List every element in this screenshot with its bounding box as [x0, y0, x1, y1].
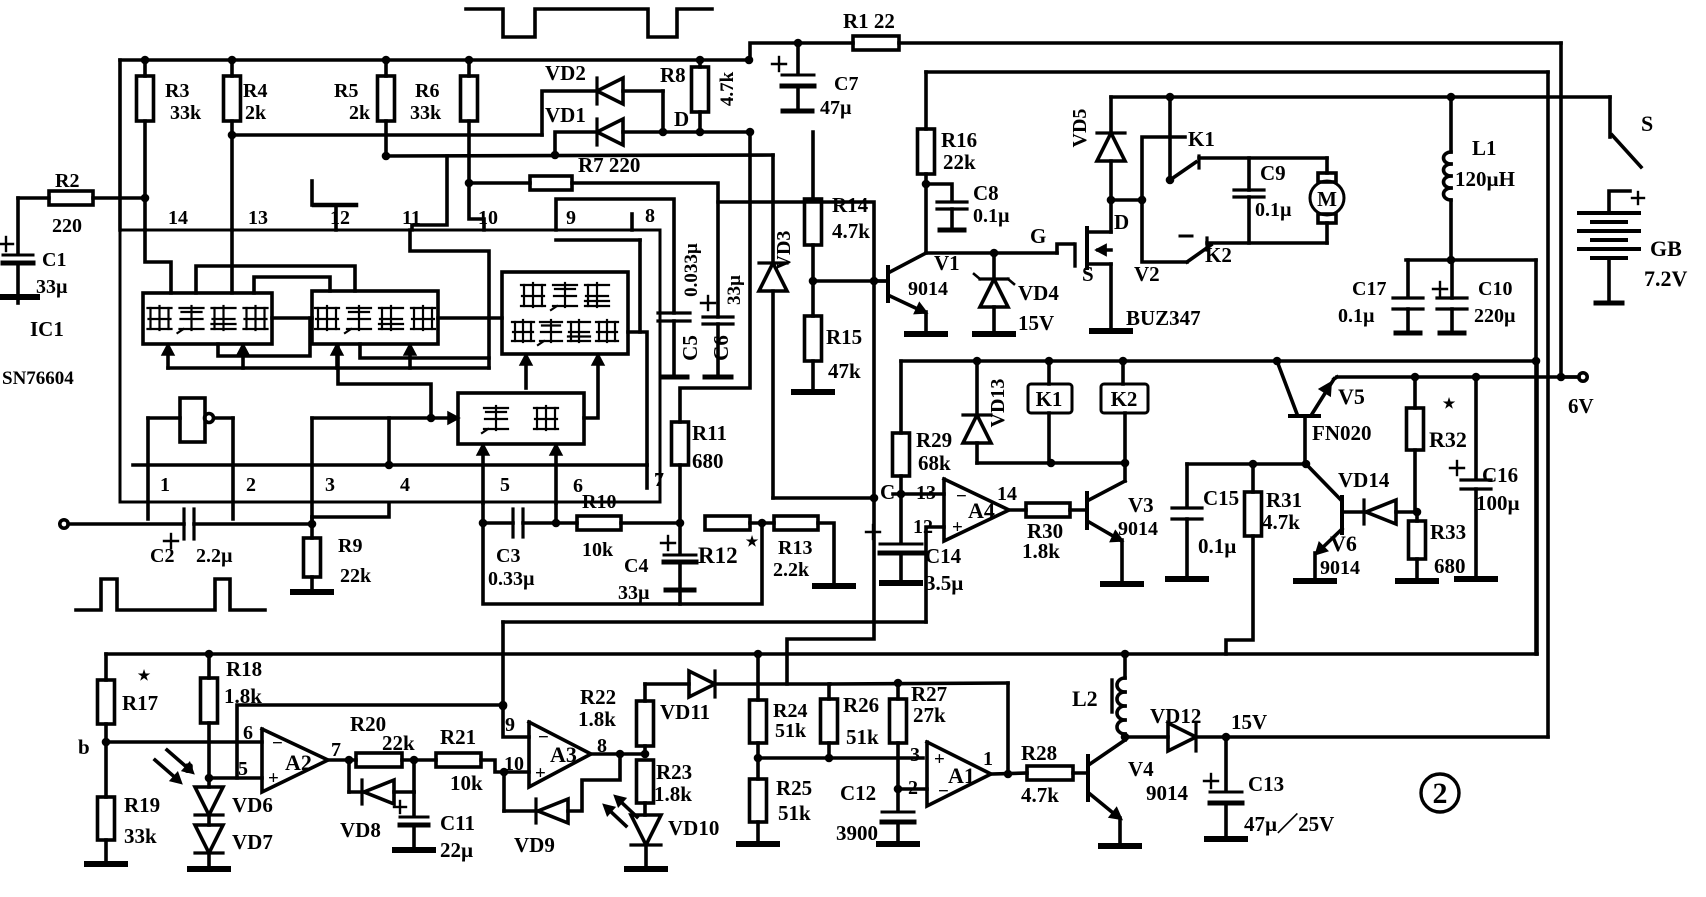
svg-text:S: S [1641, 111, 1653, 136]
terminal input open circle [60, 520, 184, 528]
photodiode VD7 [195, 815, 273, 866]
svg-text:R18: R18 [226, 657, 262, 681]
svg-text:L2: L2 [1072, 686, 1098, 711]
svg-text:VD4: VD4 [1018, 281, 1059, 305]
transistor V6 [1306, 464, 1360, 579]
resistor R13 [773, 516, 834, 583]
resistor R25 [750, 758, 813, 841]
label circled 2 [1421, 774, 1459, 812]
resistor R24 [750, 654, 808, 762]
svg-text:6: 6 [243, 722, 253, 744]
resistor R4 [224, 60, 268, 230]
IC pin9 wire to C5 [556, 199, 674, 332]
svg-text:4.7k: 4.7k [1262, 510, 1300, 534]
svg-text:+: + [535, 763, 546, 784]
diode VD9 feedback [504, 754, 620, 857]
svg-text:8: 8 [645, 205, 655, 227]
resistor R32 [1407, 377, 1467, 512]
svg-text:27k: 27k [913, 703, 946, 727]
svg-text:R29: R29 [916, 428, 952, 452]
ground for C1 [0, 297, 37, 303]
wire A4 + input riser [926, 527, 944, 622]
svg-text:R19: R19 [124, 793, 160, 817]
wire A3 plus input [504, 770, 529, 774]
resistor R21 [402, 725, 508, 795]
relay coil K2 [1101, 361, 1148, 463]
resistor R29 [893, 361, 953, 494]
svg-text:12: 12 [330, 207, 350, 229]
svg-text:K2: K2 [1205, 243, 1232, 267]
svg-text:1: 1 [160, 474, 170, 496]
svg-text:C13: C13 [1248, 772, 1284, 796]
wire A1 pin3 row [758, 754, 923, 763]
wire C10 C17 rail [1406, 256, 1536, 654]
svg-text:GB: GB [1650, 236, 1682, 261]
svg-text:R21: R21 [440, 725, 476, 749]
resistor R15 [805, 281, 863, 389]
svg-text:R4: R4 [243, 80, 267, 102]
svg-text:R20: R20 [350, 712, 386, 736]
capacitor C15 [1172, 464, 1239, 576]
ground for VD10 [627, 866, 665, 872]
ground for V4 [1101, 843, 1139, 849]
block pulse stretcher box [312, 291, 438, 344]
resistor R6 [410, 60, 484, 230]
ground for VD4 [975, 331, 1013, 337]
svg-text:C14: C14 [925, 544, 962, 568]
svg-text:51k: 51k [778, 801, 811, 825]
wire A1 pin2 [894, 785, 927, 794]
svg-text:K1: K1 [1036, 387, 1063, 411]
capacitor C3 [483, 509, 556, 590]
svg-text:IC1: IC1 [30, 317, 64, 341]
svg-text:R10: R10 [582, 491, 616, 513]
wire R7 node to V1 base [718, 202, 874, 281]
svg-text:A1: A1 [948, 763, 975, 788]
transistor V3 [1087, 463, 1158, 581]
capacitor C6 [701, 275, 745, 377]
wire D node vertical [680, 132, 750, 422]
ground for C16 [1457, 576, 1495, 582]
svg-text:C17: C17 [1352, 278, 1386, 300]
svg-text:7.2V: 7.2V [1644, 266, 1688, 291]
svg-text:1.8k: 1.8k [1022, 539, 1060, 563]
IC internal block links [145, 230, 647, 465]
wire base net to VD11 staircase [787, 281, 874, 684]
svg-text:9: 9 [505, 714, 515, 736]
capacitor C9 [1234, 158, 1292, 243]
wire long bottom rail [106, 361, 1537, 658]
wire A1 feedback row [830, 679, 1008, 774]
wire right vertical from R1 [1557, 43, 1566, 381]
svg-text:R9: R9 [338, 535, 362, 557]
svg-text:M: M [1317, 187, 1337, 211]
svg-text:9014: 9014 [908, 278, 948, 300]
svg-text:0.1µ: 0.1µ [1198, 534, 1236, 558]
svg-text:R32: R32 [1429, 427, 1467, 452]
svg-text:9014: 9014 [1146, 781, 1189, 805]
svg-text:2k: 2k [245, 102, 267, 124]
diode VD14 [1338, 468, 1421, 524]
IC internal bus [133, 461, 647, 470]
node D row with diodes [232, 91, 597, 135]
label IC1 [2, 317, 74, 389]
svg-text:33k: 33k [410, 102, 442, 124]
svg-text:R1 22: R1 22 [843, 9, 895, 33]
svg-text:0.033µ: 0.033µ [681, 243, 702, 297]
switch S [1610, 97, 1653, 167]
IC internal monostable source wire [338, 346, 431, 418]
IC internal pin1 pin2 wires [148, 418, 233, 519]
svg-text:R24: R24 [773, 700, 807, 722]
svg-text:10k: 10k [582, 539, 614, 561]
IC pin7 stub [645, 465, 649, 488]
ground for C13 [1207, 836, 1245, 842]
svg-text:13: 13 [248, 207, 268, 229]
svg-text:R5: R5 [334, 80, 358, 102]
svg-text:2k: 2k [349, 102, 371, 124]
svg-text:22µ: 22µ [440, 838, 473, 862]
svg-text:33k: 33k [124, 824, 157, 848]
resistor R31 [1226, 464, 1302, 654]
relay coil K1 [1028, 361, 1072, 463]
transistor V5 [1277, 361, 1372, 464]
svg-text:51k: 51k [775, 720, 807, 742]
ground for R9 [293, 589, 331, 595]
svg-text:C8: C8 [973, 181, 999, 205]
resistor R10 [556, 491, 684, 561]
ground for R19 [87, 861, 125, 867]
svg-text:V4: V4 [1128, 757, 1154, 781]
svg-text:VD1: VD1 [545, 103, 586, 127]
svg-text:C3: C3 [496, 545, 520, 567]
svg-text:VD12: VD12 [1150, 704, 1201, 728]
svg-text:C16: C16 [1482, 463, 1518, 487]
relay contact K1 [1142, 97, 1215, 200]
svg-text:G: G [1030, 224, 1046, 248]
svg-text:2.2k: 2.2k [773, 559, 810, 581]
photodiode VD6 [155, 750, 273, 817]
wire a to pin5 riser [237, 701, 507, 778]
svg-text:3.5µ: 3.5µ [925, 571, 963, 595]
svg-text:4.7k: 4.7k [1021, 783, 1059, 807]
wire G row [926, 224, 1073, 257]
svg-text:R15: R15 [826, 325, 862, 349]
svg-text:9014: 9014 [1320, 557, 1360, 579]
wire 15V top feed [926, 70, 1548, 74]
capacitor C10 [1433, 260, 1516, 333]
svg-text:A2: A2 [285, 750, 312, 775]
wire pin4 jog [312, 503, 389, 517]
svg-text:C10: C10 [1478, 278, 1512, 300]
motor M [1310, 158, 1344, 243]
svg-text:C5: C5 [678, 335, 702, 361]
resistor R33 [1409, 512, 1467, 578]
wire 6V rail [1337, 373, 1579, 382]
svg-text:47µ／25V: 47µ／25V [1244, 812, 1334, 836]
ground for R25 [739, 841, 777, 847]
resistor R14 [805, 132, 871, 285]
svg-text:5: 5 [238, 758, 248, 780]
op-amp A3 [504, 714, 607, 787]
svg-text:R14: R14 [832, 193, 869, 217]
capacitor C2 [150, 509, 312, 567]
svg-text:9014: 9014 [1118, 518, 1158, 540]
svg-text:R25: R25 [776, 776, 812, 800]
svg-text:14: 14 [168, 207, 188, 229]
ground for VD7 [190, 866, 228, 872]
svg-text:33µ: 33µ [724, 275, 745, 305]
wire VD3 to base net [773, 494, 878, 503]
wire pin5 stub [479, 503, 488, 527]
inductor L1 [1449, 97, 1453, 152]
capacitor C11 [394, 792, 475, 862]
inductor L2 [1072, 654, 1129, 741]
waveform top pulse train [466, 9, 712, 37]
capacitor C4 [618, 523, 696, 604]
IC internal monostable input arrows [479, 446, 560, 503]
IC internal extra wires [196, 266, 489, 358]
svg-text:VD5: VD5 [1069, 109, 1091, 148]
ground for R13 [815, 583, 853, 589]
svg-text:R17: R17 [122, 691, 158, 715]
block monostable box [458, 393, 584, 444]
svg-text:C6: C6 [709, 335, 733, 361]
resistor R27 [890, 682, 948, 789]
diode VD2 [545, 61, 663, 104]
wire relay supply rail [901, 357, 1540, 366]
inverter symbol inside IC [148, 398, 233, 442]
svg-text:BUZ347: BUZ347 [1126, 306, 1201, 330]
resistor R9 [304, 517, 373, 589]
svg-text:5: 5 [500, 474, 510, 496]
svg-text:C1: C1 [42, 249, 66, 271]
MOSFET V2 [1075, 200, 1201, 330]
resistor R18 [201, 654, 263, 782]
svg-text:14: 14 [997, 483, 1017, 505]
ground for C14 [882, 580, 920, 586]
svg-text:68k: 68k [918, 451, 951, 475]
resistor R26 [821, 684, 880, 758]
wire top supply rail [120, 56, 753, 65]
svg-text:7: 7 [654, 469, 664, 491]
capacitor C8 [926, 181, 1010, 230]
diode VD1 [545, 103, 754, 155]
transistor V4 [1088, 737, 1189, 843]
svg-text:R2: R2 [55, 170, 79, 192]
svg-text:C7: C7 [834, 73, 858, 95]
svg-text:D: D [674, 107, 689, 131]
svg-text:1.8k: 1.8k [578, 707, 616, 731]
capacitor C14 [866, 494, 963, 595]
op-amp A4 [913, 479, 1017, 541]
svg-text:120µH: 120µH [1455, 167, 1515, 191]
resistor R8 [660, 60, 738, 132]
ground for V6 [1296, 578, 1334, 584]
svg-text:100µ: 100µ [1476, 491, 1520, 515]
svg-text:−: − [538, 727, 549, 748]
svg-text:47k: 47k [828, 359, 861, 383]
wire A3 output [591, 750, 649, 759]
block comparator dead-zone box [502, 272, 628, 354]
wire motor supply row [1111, 93, 1610, 102]
svg-text:+: + [934, 749, 945, 770]
svg-text:220µ: 220µ [1474, 305, 1516, 327]
zener VD4 [974, 253, 1059, 335]
svg-text:K1: K1 [1188, 127, 1215, 151]
svg-text:0.1µ: 0.1µ [1255, 199, 1292, 221]
svg-text:VD11: VD11 [660, 700, 710, 724]
svg-text:22k: 22k [382, 731, 415, 755]
IC internal arrows row [164, 230, 489, 368]
svg-text:10: 10 [478, 207, 498, 229]
node b [78, 735, 262, 759]
svg-text:★: ★ [138, 668, 151, 684]
svg-text:15V: 15V [1018, 311, 1054, 335]
svg-text:47µ: 47µ [820, 97, 852, 119]
capacitor C13 [1204, 737, 1334, 836]
wire pin6 stub [552, 503, 561, 527]
svg-text:C4: C4 [624, 555, 648, 577]
resistor R7 [469, 153, 718, 317]
svg-text:VD8: VD8 [340, 818, 381, 842]
relay contact K2 [1142, 200, 1232, 267]
wire relay common rail [977, 459, 1129, 468]
IC IC1 SN76604 box [120, 230, 660, 502]
svg-text:7: 7 [331, 739, 341, 761]
svg-text:VD6: VD6 [232, 793, 273, 817]
svg-text:FN020: FN020 [1312, 421, 1372, 445]
capacitor C17 [1338, 260, 1423, 333]
svg-text:0.1µ: 0.1µ [1338, 305, 1375, 327]
svg-text:V2: V2 [1134, 262, 1160, 286]
resistor R22 [578, 684, 654, 754]
diode VD11 [645, 671, 830, 724]
svg-text:33µ: 33µ [618, 582, 650, 604]
wire motor loop [1199, 158, 1327, 243]
resistor R16 [918, 72, 978, 188]
IC pin numbers bottom [160, 469, 664, 497]
svg-text:2: 2 [1433, 777, 1448, 810]
waveform bottom pulse train [76, 579, 265, 610]
wire right vertical 15V [1546, 72, 1550, 737]
ground for R15 [794, 389, 832, 395]
svg-text:R12: R12 [698, 543, 738, 568]
svg-text:51k: 51k [846, 725, 879, 749]
resistor R23 [637, 760, 693, 815]
svg-text:0.33µ: 0.33µ [488, 568, 535, 590]
svg-text:3900: 3900 [836, 821, 878, 845]
wire feedback box C3 to R12 [483, 523, 762, 604]
svg-text:VD14: VD14 [1338, 468, 1390, 492]
diode VD8 [340, 760, 414, 842]
svg-text:R26: R26 [843, 693, 879, 717]
svg-text:13: 13 [916, 482, 936, 504]
resistor R5 [334, 60, 395, 160]
node a [184, 756, 262, 778]
op-amp A2 [238, 722, 341, 792]
ground for C15 [1168, 576, 1206, 582]
wire A4 plus row [503, 620, 926, 624]
svg-text:4.7k: 4.7k [832, 219, 870, 243]
ground for R33 [1398, 578, 1436, 584]
transistor V1 [874, 184, 960, 331]
svg-text:220: 220 [52, 215, 82, 237]
svg-text:V3: V3 [1128, 493, 1154, 517]
svg-text:9: 9 [566, 207, 576, 229]
IC internal ground pin12 [312, 181, 356, 230]
resistor R12 [698, 516, 774, 568]
svg-text:V6: V6 [1330, 531, 1357, 556]
op-amp A1 [908, 742, 993, 806]
svg-text:R8: R8 [660, 63, 686, 87]
ground for V2 [1092, 328, 1130, 334]
svg-text:6V: 6V [1568, 394, 1594, 418]
svg-text:C12: C12 [840, 781, 876, 805]
ground for V3 [1103, 581, 1141, 587]
svg-text:D: D [1114, 210, 1129, 234]
svg-text:3: 3 [910, 744, 920, 766]
svg-text:680: 680 [692, 449, 724, 473]
wire pin9 node [499, 622, 529, 737]
svg-text:R16: R16 [941, 128, 977, 152]
svg-text:33k: 33k [170, 102, 202, 124]
svg-text:VD2: VD2 [545, 61, 586, 85]
svg-text:C: C [880, 480, 895, 504]
svg-text:C11: C11 [440, 811, 475, 835]
svg-text:1: 1 [983, 748, 993, 770]
svg-text:1.8k: 1.8k [654, 782, 692, 806]
svg-text:R31: R31 [1266, 488, 1302, 512]
svg-text:A3: A3 [550, 742, 577, 767]
capacitor C1 [0, 198, 68, 298]
svg-text:R33: R33 [1430, 520, 1466, 544]
svg-text:VD3: VD3 [773, 231, 795, 270]
svg-text:VD10: VD10 [668, 816, 719, 840]
wire pin11 row [386, 151, 773, 230]
svg-text:L1: L1 [1472, 136, 1497, 160]
label D [674, 107, 689, 131]
resistor R19 [98, 742, 161, 861]
svg-text:VD13: VD13 [987, 379, 1009, 428]
svg-text:★: ★ [1443, 396, 1456, 412]
resistor R2 [18, 170, 145, 237]
svg-text:2: 2 [246, 474, 256, 496]
resistor R28 [991, 741, 1087, 807]
wire rail to IC box edge [118, 60, 122, 230]
diode VD12 [1125, 704, 1230, 751]
block amplifier box [143, 293, 272, 344]
svg-text:C2: C2 [150, 545, 174, 567]
capacitor C16 [1450, 377, 1520, 576]
svg-text:2.2µ: 2.2µ [196, 545, 233, 567]
node C wire [880, 480, 944, 504]
svg-text:SN76604: SN76604 [2, 368, 74, 389]
svg-text:4: 4 [400, 474, 410, 496]
svg-text:VD7: VD7 [232, 830, 273, 854]
diode VD3 [759, 155, 795, 498]
svg-text:10k: 10k [450, 771, 483, 795]
svg-text:A4: A4 [968, 498, 995, 523]
svg-text:★: ★ [746, 534, 759, 550]
wire 15V bottom rail [1226, 710, 1548, 737]
diode VD5 [1069, 97, 1125, 204]
svg-text:3: 3 [325, 474, 335, 496]
svg-text:−: − [956, 486, 967, 507]
resistor R1 [750, 9, 1561, 60]
ground for C12 [879, 841, 917, 847]
svg-text:V5: V5 [1338, 384, 1365, 409]
